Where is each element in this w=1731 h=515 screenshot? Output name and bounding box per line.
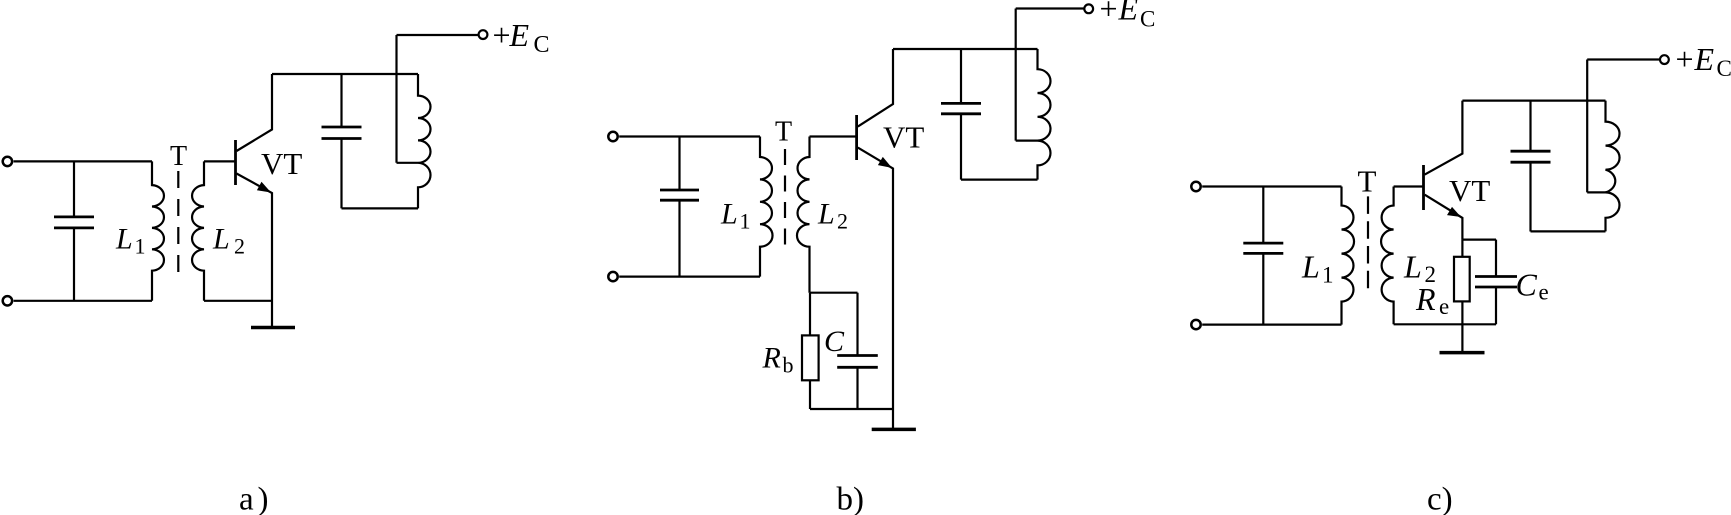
svg-text:R: R — [762, 342, 781, 375]
capacitor tank b stem top — [960, 49, 962, 103]
transistor VT b base bar — [855, 115, 858, 160]
svg-text:C: C — [1717, 56, 1731, 81]
transistor VT a emitter arrow — [257, 182, 271, 193]
wire input top a — [14, 160, 152, 162]
inductor tank c — [1606, 101, 1620, 232]
wire network top c — [1462, 239, 1496, 241]
terminal input top c — [1191, 182, 1200, 191]
svg-text:+: + — [493, 17, 511, 53]
wire network bottom b — [810, 408, 893, 410]
svg-text:L: L — [115, 223, 133, 256]
transformer core T b — [784, 149, 786, 245]
svg-text:T: T — [170, 141, 187, 172]
capacitor tank c stem bottom — [1529, 162, 1531, 231]
wire EC vertical c — [1586, 60, 1588, 193]
svg-text:VT: VT — [261, 146, 302, 181]
resistor Re lead top — [1461, 240, 1463, 257]
svg-text:E: E — [509, 17, 530, 53]
wire input bottom b — [619, 276, 760, 278]
wire tank bottom a — [342, 207, 419, 209]
inductor L1 a — [152, 161, 164, 300]
ground a — [251, 326, 295, 330]
wire network top b — [810, 292, 858, 294]
svg-text:C: C — [1140, 7, 1155, 32]
svg-text:+: + — [1676, 41, 1694, 77]
ground b — [872, 428, 916, 432]
svg-text:L: L — [817, 198, 835, 231]
capacitor input c plates — [1243, 242, 1283, 245]
wire L2 bottom to emitter a — [204, 300, 272, 302]
transistor VT b emitter arrow — [878, 157, 892, 168]
transistor VT a base bar — [234, 140, 237, 185]
svg-text:L: L — [720, 198, 738, 231]
capacitor Ce lead top — [1495, 240, 1497, 277]
svg-text:L: L — [212, 223, 230, 256]
capacitor input c stem top — [1262, 187, 1264, 244]
resistor Rb lead top — [809, 293, 811, 336]
wire coil tap a — [397, 162, 419, 164]
capacitor input c stem bottom — [1262, 253, 1264, 324]
resistor Rb body — [802, 335, 819, 380]
svg-text:b): b) — [837, 482, 865, 515]
svg-text:L: L — [1403, 249, 1422, 285]
capacitor C b plates — [837, 354, 878, 357]
svg-text:b: b — [783, 353, 794, 378]
transistor VT c emitter arrow — [1447, 207, 1461, 217]
terminal input bottom b — [608, 272, 617, 281]
terminal +EC a — [479, 30, 488, 39]
svg-text:e: e — [1539, 280, 1549, 305]
resistor Re lead bottom — [1461, 301, 1463, 324]
svg-text:2: 2 — [837, 209, 848, 234]
wire tank bottom b — [961, 179, 1038, 181]
terminal input top b — [608, 132, 617, 141]
capacitor C b lead top — [856, 293, 858, 356]
wire EC horizontal c — [1587, 58, 1659, 60]
inductor L1 c — [1342, 187, 1355, 325]
svg-text:C: C — [534, 32, 550, 58]
wire collector top rail c — [1462, 99, 1605, 101]
inductor L2 b — [797, 137, 810, 293]
svg-text:L: L — [1301, 249, 1320, 285]
terminal +EC b — [1084, 4, 1093, 13]
inductor tank b — [1038, 49, 1051, 180]
wire EC vertical a — [395, 35, 397, 163]
wire input bottom a — [14, 300, 152, 302]
transistor VT c base bar — [1422, 165, 1425, 210]
resistor Re body — [1454, 257, 1470, 302]
capacitor tank b stem bottom — [960, 114, 962, 180]
svg-text:1: 1 — [135, 234, 146, 259]
wire tank bottom c — [1531, 230, 1606, 232]
capacitor tank a stem bottom — [340, 139, 342, 209]
capacitor tank b plates — [941, 102, 981, 105]
capacitor input a stem bottom — [73, 228, 75, 301]
svg-text:E: E — [1694, 41, 1715, 77]
svg-text:c): c) — [1427, 482, 1453, 515]
wire base c — [1394, 185, 1423, 187]
capacitor input b stem top — [678, 137, 680, 191]
transformer core T a — [177, 171, 179, 272]
wire input top b — [619, 135, 760, 137]
capacitor input b plates — [660, 189, 699, 192]
svg-text:+: + — [1100, 0, 1118, 27]
wire network bottom c — [1394, 323, 1496, 325]
svg-text:): ) — [258, 482, 269, 515]
wire input top c — [1202, 185, 1341, 187]
svg-text:C: C — [824, 325, 845, 358]
svg-text:T: T — [1358, 164, 1377, 199]
svg-text:2: 2 — [234, 234, 245, 259]
wire coil tap c — [1587, 191, 1605, 193]
capacitor input a plates — [54, 215, 94, 218]
terminal +EC c — [1660, 55, 1669, 64]
capacitor tank a stem top — [340, 74, 342, 127]
svg-text:T: T — [775, 117, 792, 148]
capacitor Ce plates — [1475, 275, 1517, 278]
transistor VT b collector — [858, 49, 893, 127]
svg-text:VT: VT — [883, 120, 924, 155]
transistor VT c collector — [1425, 101, 1463, 175]
capacitor tank a plates — [322, 126, 362, 129]
terminal input bottom c — [1191, 320, 1200, 329]
svg-text:R: R — [1415, 281, 1436, 317]
inductor L1 b — [760, 137, 773, 277]
wire ground drop c — [1461, 324, 1463, 351]
transistor VT a collector — [237, 74, 273, 151]
resistor Rb lead bottom — [809, 380, 811, 409]
inductor L2 c — [1381, 187, 1394, 325]
wire EC horizontal b — [1016, 7, 1084, 9]
capacitor tank c stem top — [1529, 101, 1531, 152]
terminal input bottom a — [3, 296, 12, 305]
wire collector top rail b — [893, 48, 1038, 50]
svg-text:C: C — [1516, 267, 1538, 303]
transistor VT a emitter — [237, 174, 273, 327]
wire collector top rail a — [272, 73, 418, 75]
svg-text:1: 1 — [740, 209, 751, 234]
wire base b — [810, 135, 856, 137]
ground c — [1440, 351, 1485, 355]
capacitor tank c plates — [1511, 150, 1551, 153]
transformer core T c — [1367, 196, 1369, 288]
svg-text:1: 1 — [1322, 263, 1334, 288]
capacitor input a stem top — [73, 161, 75, 217]
capacitor Ce lead bottom — [1495, 287, 1497, 324]
wire EC vertical b — [1015, 9, 1017, 141]
wire base a — [204, 160, 235, 162]
terminal input top a — [3, 157, 12, 166]
transistor VT b emitter — [858, 148, 893, 428]
inductor tank a — [418, 74, 431, 208]
wire coil tap b — [1016, 140, 1038, 142]
svg-text:e: e — [1439, 294, 1449, 319]
wire input bottom c — [1202, 324, 1341, 326]
svg-text:E: E — [1118, 0, 1139, 27]
inductor L2 a — [192, 161, 204, 300]
svg-text:a: a — [239, 482, 254, 515]
transistor VT c emitter — [1425, 195, 1463, 240]
capacitor input b stem bottom — [678, 200, 680, 276]
capacitor C b lead bottom — [856, 367, 858, 409]
svg-text:VT: VT — [1449, 173, 1490, 208]
wire EC horizontal a — [397, 34, 479, 36]
